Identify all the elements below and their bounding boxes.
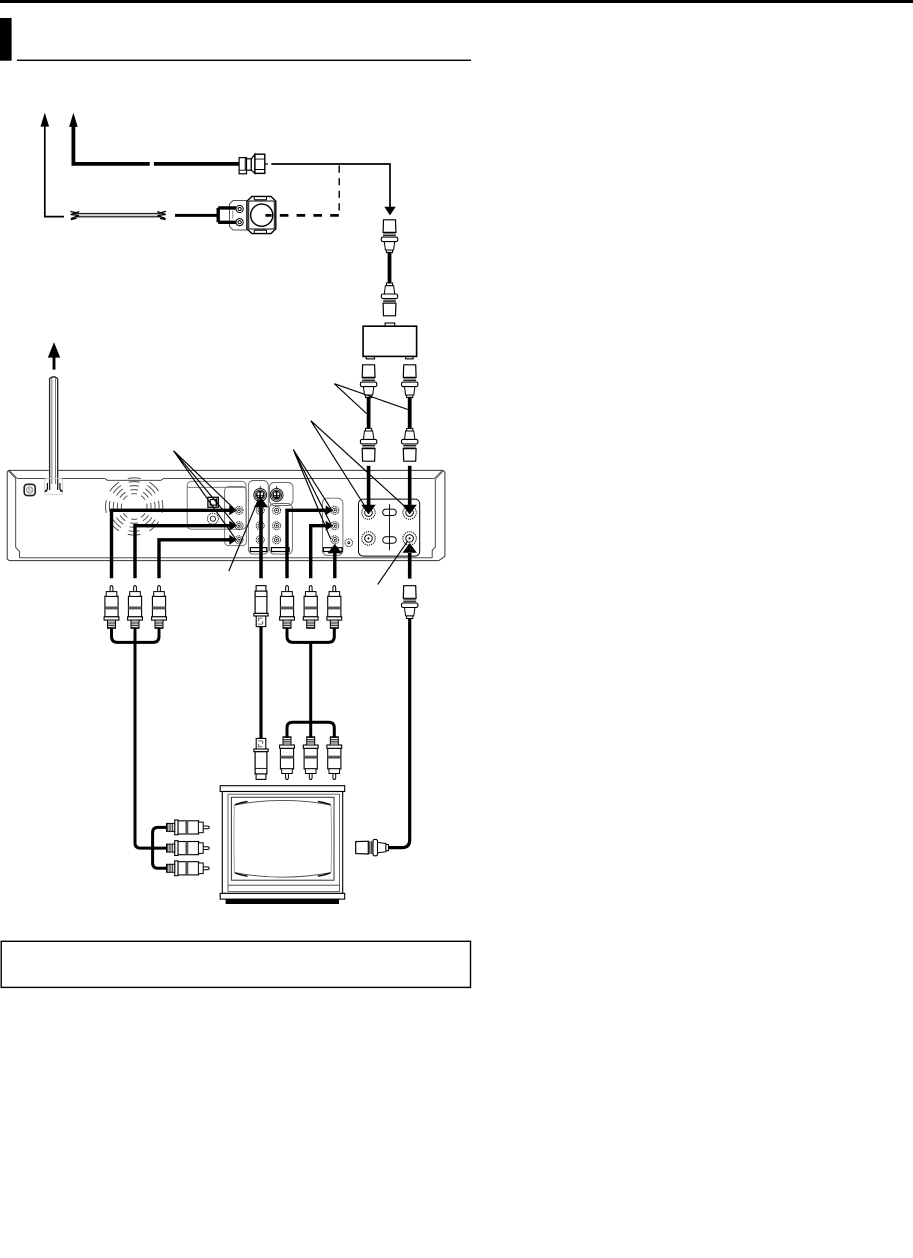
- callout fan to left RCA jacks: [174, 451, 236, 540]
- TV cabinet body: [222, 792, 342, 894]
- chapter tab: [0, 18, 12, 61]
- audio/video cable 3 into left jack 3: [159, 540, 230, 578]
- TV bezel: [228, 794, 340, 891]
- middle RCA lower plug 3 (down): [327, 737, 342, 780]
- power cord: [49, 376, 59, 491]
- S-video cable lower plug (down): [254, 738, 268, 779]
- arrow from antenna (thick, up): [72, 127, 240, 164]
- middle cable split wires: [287, 722, 334, 737]
- left cable RCA plug 3 (up): [152, 586, 167, 629]
- optical digital audio connector: [208, 497, 218, 507]
- RF OUT jack (to TV): [403, 532, 416, 545]
- splitter output cable R: lower plug: [402, 428, 418, 461]
- title underline: [17, 60, 471, 61]
- TV CRT screen: [234, 800, 332, 877]
- S-video group 1 box: [248, 481, 268, 555]
- TV control band line: [228, 884, 340, 886]
- middle RCA lower plug 1 (down): [280, 737, 295, 780]
- S-video jack 1: [254, 486, 267, 501]
- right RCA output jack 3: [331, 536, 339, 544]
- output audio cable arrow into right jack 2: [311, 526, 326, 579]
- RF IN jack (from antenna): [362, 506, 375, 519]
- wire from F-connector to RF IN adapter: [271, 164, 390, 208]
- RF OUT coax plug (up, below recorder): [402, 586, 418, 619]
- left main cable down to TV: [135, 628, 167, 848]
- coaxial digital audio jack: [207, 513, 218, 524]
- splitter output cable L: upper plug: [360, 365, 376, 398]
- S-video cable upper plug (up): [254, 586, 268, 627]
- right RCA output jack 1: [331, 506, 339, 514]
- twin-lead wire to matching transformer: [175, 214, 217, 217]
- splitter output cable L: cable: [367, 397, 371, 430]
- group 1 RCA jack 2: [256, 522, 264, 530]
- chassis screw: [24, 484, 35, 495]
- callout fan to splitter cables: [334, 384, 408, 414]
- power cord strain relief: [45, 478, 63, 494]
- TV RCA plug 3 (right): [167, 861, 210, 876]
- TV base lip: [220, 893, 345, 899]
- digital audio jack group box: [187, 481, 246, 529]
- middle RCA plug 1 (up): [280, 586, 295, 629]
- top bar: [0, 0, 913, 3]
- recorder rear panel outline: [7, 470, 445, 560]
- S-video group 2 boxes: [269, 483, 293, 555]
- splitter output cable R: cable: [408, 397, 412, 430]
- middle RCA plug 2 (up): [303, 586, 318, 629]
- TV pedestal: [226, 899, 339, 904]
- 75-ohm coaxial cable F-connector: [239, 154, 268, 174]
- coax jumper cable: lower plug: [381, 283, 397, 316]
- callout leader to S-video jack: [229, 499, 259, 571]
- RF coax plug into TV (pointing left): [356, 839, 389, 855]
- TV input branch wire: [153, 827, 167, 868]
- audio/video cable 1 into left jack 1: [112, 510, 230, 578]
- splitter output cable R: upper plug: [402, 365, 418, 398]
- splitter cable R arrow into RF IN right: [408, 466, 412, 505]
- RF section box: [359, 499, 420, 556]
- S-video cable wire: [259, 626, 262, 738]
- group 1 RCA jack 1: [256, 506, 264, 514]
- middle RCA lower plug 2 (down): [303, 737, 318, 780]
- group 2 RCA jack 3: [273, 536, 281, 544]
- twin-lead antenna wire: [70, 211, 166, 219]
- matching transformer (balun): [218, 196, 276, 233]
- left RCA input jack 2: [235, 522, 243, 530]
- splitter cable L arrow into RF IN: [367, 466, 371, 505]
- middle cable trunk wire: [309, 642, 312, 737]
- RF bypass jack: [362, 532, 375, 545]
- middle RCA plug 3 (up): [327, 586, 342, 629]
- right RCA group slot: [323, 548, 342, 552]
- arrow to antenna (thin, up): [45, 126, 64, 217]
- left cable RCA plug 1 (up): [104, 586, 119, 629]
- callout fan to right RCA jacks: [293, 450, 331, 539]
- audio/video cable 2 into left jack 2: [135, 526, 230, 579]
- splitter output cable L: lower plug: [360, 428, 376, 461]
- right RCA output jack 2: [331, 522, 339, 530]
- right RCA output group box: [322, 498, 343, 555]
- S-video group 1 slot: [250, 548, 266, 552]
- group 2 RCA jack 2: [273, 522, 281, 530]
- RF IN jack (right): [403, 506, 416, 519]
- dashed wire (alternate hookup, horizontal bold): [266, 214, 339, 217]
- S-video jack 2: [270, 486, 283, 501]
- cooling fan grille: [106, 478, 163, 535]
- two-way splitter box: [363, 323, 417, 359]
- left cable merge wires: [112, 628, 160, 642]
- coax jumper cable: upper plug: [381, 220, 397, 253]
- left RCA input jack 3: [235, 536, 243, 544]
- callout fan to RF IN jacks: [311, 421, 408, 510]
- output audio cable arrow into right jack 3: [333, 553, 336, 578]
- callout leader to RF OUT jack: [378, 541, 408, 584]
- power cord arrow (to AC outlet): [53, 357, 56, 370]
- RF coax cable down to TV: [389, 618, 410, 847]
- TV screen frame: [231, 797, 334, 880]
- output video cable arrow into right jack 1: [287, 510, 326, 578]
- small control jack: [345, 539, 353, 547]
- RF OUT cable arrow up into RF OUT jack: [408, 553, 412, 579]
- middle cable merge wires: [287, 628, 334, 642]
- TV RCA plug 1 (right): [167, 820, 210, 835]
- TV RCA plug 2 (right): [167, 841, 210, 856]
- dashed wire (alternate hookup, vertical): [338, 166, 340, 216]
- note box: [1, 941, 470, 987]
- left RCA input jack 1: [235, 506, 243, 514]
- coax jumper cable: cable: [388, 252, 392, 284]
- group 1 RCA jack 3: [256, 536, 264, 544]
- line audio/video jack group box: [225, 487, 247, 546]
- group 2 RCA jack 1: [273, 506, 281, 514]
- S-video cable arrow into S-video jack 1: [259, 507, 263, 578]
- left cable RCA plug 2 (up): [128, 586, 143, 629]
- S-video group 2 slot: [271, 548, 289, 552]
- TV cabinet top lip: [220, 786, 345, 792]
